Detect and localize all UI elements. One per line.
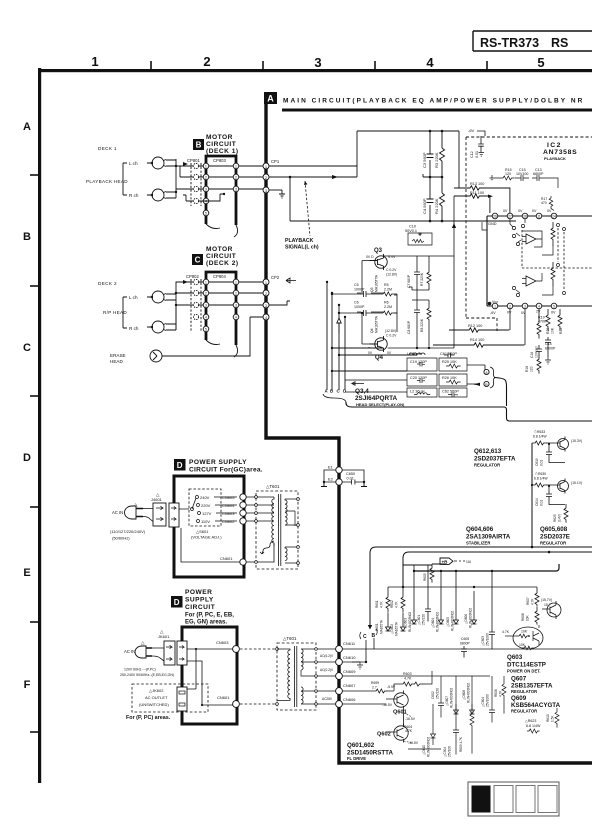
wire head R to bus bbox=[166, 192, 176, 198]
svg-text:Q3: Q3 bbox=[370, 287, 374, 292]
CN605 pin bbox=[240, 494, 246, 500]
capacitor C3 bbox=[427, 131, 434, 177]
svg-text:△D610: △D610 bbox=[422, 745, 426, 755]
svg-text:D: D bbox=[343, 389, 346, 394]
gnd hook bbox=[482, 222, 487, 230]
JK602 dashed box bbox=[132, 684, 208, 712]
svg-text:2: 2 bbox=[509, 305, 511, 309]
svg-text:REGULATOR: REGULATOR bbox=[540, 541, 566, 546]
svg-text:CN605: CN605 bbox=[222, 495, 235, 500]
filter row2 box R26 bbox=[439, 374, 467, 386]
rail B+ y547 bbox=[370, 547, 592, 553]
secondary winding 2 bbox=[285, 547, 287, 561]
svg-text:27: 27 bbox=[508, 215, 512, 219]
svg-text:Q602: Q602 bbox=[377, 732, 391, 738]
T601b dashed box bbox=[277, 643, 316, 710]
svg-text:2.7: 2.7 bbox=[372, 686, 377, 690]
wire Q3/Q4 cap links bbox=[357, 293, 397, 313]
svg-text:C 0.2V: C 0.2V bbox=[386, 268, 397, 272]
svg-text:C: C bbox=[23, 342, 31, 354]
svg-text:A: A bbox=[267, 94, 274, 104]
CN603 pin bbox=[240, 510, 246, 516]
dashed internal h1 bbox=[522, 267, 592, 269]
svg-text:2: 2 bbox=[265, 176, 267, 180]
svg-text:C3 560P: C3 560P bbox=[422, 152, 427, 168]
wire CP2 pin3 hook bbox=[269, 301, 290, 305]
svg-text:R606: R606 bbox=[494, 689, 498, 697]
wire filter out A bbox=[467, 365, 485, 372]
arrow on R11 wire bbox=[488, 195, 493, 198]
CP803 pin 4 bbox=[203, 198, 209, 204]
dashed internal v2 bbox=[558, 228, 564, 290]
svg-text:3: 3 bbox=[235, 188, 237, 192]
wire CN610 row bbox=[342, 661, 366, 663]
primary winding bbox=[272, 497, 274, 546]
svg-text:CN603: CN603 bbox=[222, 511, 235, 516]
svg-text:0V: 0V bbox=[532, 209, 537, 213]
secondary wires to right bbox=[285, 499, 298, 563]
svg-text:Q604,606: Q604,606 bbox=[466, 526, 494, 533]
drop from rail1 to C arrow bbox=[369, 553, 371, 625]
CP801 pin 2 bbox=[193, 174, 198, 179]
head ground bus vertical bbox=[175, 159, 177, 198]
svg-text:4.7K: 4.7K bbox=[531, 598, 535, 605]
CP803 pin 2 bbox=[203, 174, 209, 180]
svg-text:C614: C614 bbox=[535, 498, 539, 506]
wire L2 signal y282 bbox=[176, 282, 264, 293]
CP2 pin 1 bbox=[263, 279, 269, 285]
svg-text:6800P: 6800P bbox=[460, 642, 471, 646]
svg-text:△D605: △D605 bbox=[446, 617, 450, 627]
selector 127V bbox=[198, 512, 201, 515]
row3 L2 C62 bbox=[407, 388, 437, 397]
svg-text:25V100: 25V100 bbox=[448, 746, 452, 757]
svg-text:10K: 10K bbox=[551, 327, 555, 334]
pin 27 stub bbox=[510, 219, 513, 227]
svg-text:MA165TTA: MA165TTA bbox=[375, 315, 379, 333]
transistor pair internal bbox=[516, 233, 521, 242]
svg-text:POWER SUPPLY: POWER SUPPLY bbox=[189, 459, 247, 466]
motor block C thick border bbox=[206, 272, 236, 345]
svg-text:6800P: 6800P bbox=[545, 347, 556, 351]
svg-text:D: D bbox=[23, 452, 31, 464]
CP801 pin 4 bbox=[193, 198, 198, 203]
Q603 dual transistor bbox=[513, 627, 543, 649]
wire below B block curve bbox=[206, 224, 238, 237]
svg-text:5: 5 bbox=[205, 328, 207, 332]
core lines bbox=[279, 494, 281, 566]
selector 220V bbox=[197, 504, 200, 507]
thermal fuse squiggle bbox=[260, 541, 274, 562]
svg-text:△S601: △S601 bbox=[196, 529, 209, 534]
CP804 pin 1 bbox=[203, 279, 209, 285]
svg-text:Q609: Q609 bbox=[511, 695, 527, 702]
svg-text:4: 4 bbox=[538, 305, 540, 309]
svg-text:Q612,613: Q612,613 bbox=[474, 448, 502, 455]
svg-text:120: 120 bbox=[505, 172, 511, 176]
svg-text:(110/127/220/240V): (110/127/220/240V) bbox=[110, 529, 146, 534]
section label C bbox=[192, 254, 203, 265]
resistor R20 bbox=[546, 309, 550, 331]
svg-text:△D606: △D606 bbox=[464, 614, 468, 624]
svg-text:Q3: Q3 bbox=[374, 248, 383, 254]
svg-text:JK601: JK601 bbox=[158, 634, 170, 639]
vertical bus to R2 bbox=[175, 305, 177, 330]
svg-text:6800P: 6800P bbox=[533, 172, 544, 176]
arrow up on bus C bbox=[337, 318, 341, 333]
wire erase y317 bbox=[162, 317, 264, 356]
svg-text:4.7K: 4.7K bbox=[404, 677, 412, 681]
wire pin4 link bbox=[199, 194, 224, 201]
top pin rail bbox=[487, 215, 592, 217]
svg-text:R607: R607 bbox=[526, 597, 530, 605]
svg-text:DECK 2: DECK 2 bbox=[98, 281, 117, 286]
svg-text:B: B bbox=[196, 141, 202, 150]
svg-text:L ch: L ch bbox=[129, 295, 138, 300]
svg-text:2: 2 bbox=[235, 176, 237, 180]
top tick 4-5 bbox=[486, 61, 488, 69]
wire Q4 source right bbox=[388, 347, 454, 349]
arrow on wire L bbox=[183, 162, 188, 166]
brace C B bbox=[360, 629, 378, 639]
IC2 top pin 26 bbox=[492, 213, 498, 219]
section label D bbox=[174, 459, 186, 471]
drop from rail2 bbox=[402, 558, 404, 587]
wire head L2 to bus bbox=[166, 294, 176, 300]
top tick 2-3 bbox=[262, 61, 264, 69]
svg-text:AN7358S: AN7358S bbox=[543, 149, 577, 156]
AC inlet wiring bbox=[178, 509, 240, 562]
arrow down C bbox=[368, 625, 372, 630]
svg-text:-6V: -6V bbox=[468, 128, 475, 133]
mid node C7R7 bbox=[409, 287, 429, 290]
svg-text:6.8 1/4W: 6.8 1/4W bbox=[533, 435, 547, 439]
r/p head L ch bbox=[152, 291, 164, 303]
svg-text:E2: E2 bbox=[328, 477, 334, 482]
svg-text:1000P: 1000P bbox=[354, 305, 365, 309]
svg-text:REGULATOR: REGULATOR bbox=[511, 689, 537, 694]
feedback wire op1 bbox=[522, 231, 542, 247]
top tick 1-2 bbox=[150, 61, 152, 69]
border left vertical line bbox=[38, 68, 41, 783]
svg-text:Q601,602: Q601,602 bbox=[347, 742, 375, 749]
svg-text:△C604: △C604 bbox=[481, 697, 485, 707]
arrow CP2 bbox=[286, 278, 296, 283]
erase head bbox=[150, 350, 162, 362]
J4601 socket box bbox=[169, 503, 179, 527]
svg-text:3: 3 bbox=[235, 304, 237, 308]
secondary winding b2 bbox=[301, 687, 303, 704]
svg-text:2: 2 bbox=[265, 292, 267, 296]
legend black square bbox=[472, 786, 491, 813]
transistor Q3 bbox=[375, 256, 387, 268]
head2 bus vertical bbox=[175, 293, 177, 330]
svg-text:2: 2 bbox=[235, 292, 237, 296]
CP804 right pin 1 bbox=[233, 279, 239, 285]
svg-text:116: 116 bbox=[466, 560, 471, 564]
wire CP801-4 stub bbox=[183, 195, 193, 201]
JK601 plug box bbox=[164, 641, 175, 665]
svg-text:B: B bbox=[372, 633, 376, 639]
JK601 socket box bbox=[177, 641, 187, 665]
border top horizontal line bbox=[38, 69, 592, 72]
JK602 socket bbox=[177, 687, 187, 711]
svg-text:26: 26 bbox=[493, 215, 497, 219]
section label D bbox=[171, 596, 183, 608]
long wire to right edge bbox=[346, 402, 592, 421]
wire CN606 row bbox=[342, 703, 386, 705]
svg-text:CP2: CP2 bbox=[271, 275, 280, 280]
svg-text:R605: R605 bbox=[423, 573, 427, 581]
svg-text:Q601: Q601 bbox=[393, 710, 407, 716]
svg-text:4.7K: 4.7K bbox=[405, 729, 413, 733]
svg-text:CN602: CN602 bbox=[222, 519, 235, 524]
svg-text:C20 120P: C20 120P bbox=[410, 376, 427, 380]
svg-text:A: A bbox=[325, 389, 329, 394]
node A bbox=[484, 369, 489, 374]
svg-text:6.8 1/4W: 6.8 1/4W bbox=[534, 477, 548, 481]
wire R2 signal y305 bbox=[176, 304, 264, 306]
E1 loop wire bbox=[324, 470, 364, 482]
wire op1 out bbox=[542, 245, 553, 255]
svg-text:1.5K: 1.5K bbox=[551, 715, 555, 722]
left tick C-D bbox=[30, 395, 41, 397]
legend outer box bbox=[468, 782, 559, 816]
wire CN609 row bbox=[342, 675, 490, 677]
voltage selector dashed box bbox=[189, 489, 221, 526]
selector rotor bbox=[191, 508, 194, 511]
svg-text:MAIN CIRCUIT(PLAYBACK EQ AMP/P: MAIN CIRCUIT(PLAYBACK EQ AMP/POWER SUPPL… bbox=[283, 98, 584, 105]
svg-text:C16: C16 bbox=[530, 352, 534, 358]
svg-text:4: 4 bbox=[235, 316, 237, 320]
svg-text:C605: C605 bbox=[461, 637, 469, 641]
svg-text:R ch: R ch bbox=[129, 326, 139, 331]
svg-text:3: 3 bbox=[265, 189, 267, 193]
selector 240V bbox=[196, 496, 199, 499]
transistor Q613 bbox=[558, 481, 569, 492]
svg-text:R26 10K: R26 10K bbox=[442, 376, 457, 380]
svg-text:3: 3 bbox=[314, 55, 321, 70]
svg-text:△T601: △T601 bbox=[266, 484, 280, 489]
left tick F-end bbox=[30, 731, 41, 733]
svg-text:6.8 1/4W: 6.8 1/4W bbox=[526, 724, 541, 728]
ground E right bbox=[361, 482, 367, 487]
connector CP801 dashed housing bbox=[191, 163, 201, 206]
svg-text:C7 680P: C7 680P bbox=[407, 274, 411, 288]
svg-text:4.7K: 4.7K bbox=[380, 601, 384, 608]
resistor R22 bbox=[558, 309, 562, 331]
top tick 3-4 bbox=[374, 61, 376, 69]
svg-text:R6: R6 bbox=[384, 301, 389, 305]
svg-text:CP803: CP803 bbox=[213, 158, 226, 163]
svg-text:R601: R601 bbox=[375, 600, 379, 608]
IC2 top pin 28 bbox=[522, 213, 528, 219]
svg-text:120V 60Hz ---(P,PC): 120V 60Hz ---(P,PC) bbox=[124, 668, 156, 672]
hexagon +B bbox=[440, 558, 453, 564]
svg-text:10V100: 10V100 bbox=[516, 172, 528, 176]
svg-text:1: 1 bbox=[235, 281, 237, 285]
svg-text:PLAYBACK HEAD: PLAYBACK HEAD bbox=[86, 179, 128, 184]
svg-text:Q607: Q607 bbox=[511, 676, 527, 683]
wire to R15 bbox=[490, 175, 501, 180]
svg-text:120: 120 bbox=[530, 366, 534, 372]
svg-text:E: E bbox=[23, 567, 30, 579]
model box outline bbox=[473, 31, 592, 51]
svg-text:1: 1 bbox=[91, 54, 98, 69]
CP804 right pin 2 bbox=[233, 290, 239, 296]
svg-text:△D602: △D602 bbox=[390, 624, 394, 634]
svg-text:1000P: 1000P bbox=[354, 288, 365, 292]
svg-text:FL DRIVE: FL DRIVE bbox=[347, 756, 366, 761]
wire head R2 to bus bbox=[166, 324, 176, 330]
wire CN607 row bbox=[342, 690, 374, 692]
svg-text:R8 220K: R8 220K bbox=[420, 318, 424, 332]
svg-text:110V: 110V bbox=[201, 519, 210, 524]
transistor Q4 bbox=[375, 338, 387, 350]
wire row2 bbox=[332, 370, 407, 372]
svg-text:C: C bbox=[337, 389, 341, 394]
svg-text:(15.7V): (15.7V) bbox=[541, 598, 552, 602]
svg-text:C4 560P: C4 560P bbox=[422, 198, 427, 214]
wire Q4 line to filter bbox=[339, 348, 417, 355]
svg-text:AC(6.2)V: AC(6.2)V bbox=[320, 654, 334, 658]
svg-text:SUPPLY: SUPPLY bbox=[185, 597, 214, 604]
junction dots C5 C6 bbox=[331, 293, 333, 295]
IC2 top pin 11 bbox=[536, 213, 542, 219]
wire op2 bbox=[542, 273, 553, 295]
CP801 pin 3 bbox=[193, 186, 198, 191]
junction dots top rail bbox=[429, 130, 432, 133]
svg-text:E1: E1 bbox=[328, 465, 334, 470]
main circuit block border bbox=[266, 104, 592, 763]
svg-text:-16.5V: -16.5V bbox=[405, 717, 416, 721]
svg-text:L ch: L ch bbox=[129, 161, 138, 166]
CN604 pin bbox=[240, 502, 246, 508]
transistor Q605 bbox=[547, 603, 561, 617]
drop C to CN row bbox=[366, 638, 374, 662]
CP804 right pin 4 bbox=[233, 314, 239, 320]
bracket deck2 labels bbox=[123, 297, 127, 328]
T601 dashed box bbox=[256, 491, 298, 569]
legend white square 3 bbox=[516, 786, 535, 813]
svg-text:CP801: CP801 bbox=[187, 158, 200, 163]
riser x459 down from rail bbox=[458, 131, 460, 188]
svg-text:△D604: △D604 bbox=[431, 618, 435, 628]
wire shield2 y293 bbox=[176, 292, 264, 294]
wire L signal y166 bbox=[176, 165, 264, 167]
long rail y221 bbox=[290, 220, 516, 222]
r/p head R ch bbox=[152, 321, 164, 333]
rail x532 bbox=[531, 443, 533, 547]
riser x290 down bbox=[289, 177, 291, 221]
svg-text:HEAD SELECT(PLAY-ON): HEAD SELECT(PLAY-ON) bbox=[356, 402, 405, 407]
svg-text:CN604: CN604 bbox=[222, 503, 235, 508]
svg-text:5: 5 bbox=[205, 212, 207, 216]
svg-text:25V220: 25V220 bbox=[436, 688, 440, 699]
svg-text:3: 3 bbox=[205, 304, 207, 308]
IC2 inner border left bbox=[486, 216, 488, 306]
transistor pair internal 2 bbox=[512, 286, 515, 289]
connector CN607 bbox=[336, 688, 343, 695]
resistor internal R b bbox=[551, 262, 555, 286]
svg-text:3: 3 bbox=[524, 305, 526, 309]
resistor R3 bbox=[440, 131, 445, 177]
svg-text:A: A bbox=[23, 121, 31, 133]
svg-text:R20: R20 bbox=[546, 328, 550, 334]
svg-text:4: 4 bbox=[205, 316, 207, 320]
CP1 pin 3 bbox=[263, 187, 269, 193]
svg-text:DECK 1: DECK 1 bbox=[98, 146, 117, 151]
svg-text:1: 1 bbox=[265, 281, 267, 285]
svg-text:MOTOR: MOTOR bbox=[206, 246, 233, 253]
svg-text:2: 2 bbox=[205, 292, 207, 296]
svg-text:25V1000: 25V1000 bbox=[486, 694, 490, 707]
svg-text:△R623: △R623 bbox=[525, 719, 536, 723]
IC2 bottom pin 1 bbox=[492, 303, 498, 309]
svg-text:240V: 240V bbox=[200, 495, 210, 500]
svg-text:△T601: △T601 bbox=[283, 636, 297, 641]
rail right of R5/R6 bbox=[396, 294, 398, 332]
svg-text:0V: 0V bbox=[507, 311, 512, 315]
resistor R630 bbox=[532, 483, 547, 487]
svg-text:C10: C10 bbox=[409, 225, 416, 229]
wire Q601 leads bbox=[403, 691, 405, 726]
IC2 dashed boundary bbox=[466, 137, 592, 331]
svg-text:4: 4 bbox=[265, 316, 267, 320]
svg-text:R16: R16 bbox=[525, 366, 529, 372]
svg-text:SIGNAL(L ch): SIGNAL(L ch) bbox=[285, 245, 319, 251]
IC2 bottom pin 3 bbox=[522, 303, 528, 309]
svg-text:25V1000: 25V1000 bbox=[486, 633, 490, 646]
CP802 pin 4 bbox=[193, 314, 198, 319]
svg-text:RS-TR373: RS-TR373 bbox=[480, 36, 539, 50]
svg-text:R/P HEAD: R/P HEAD bbox=[103, 310, 127, 315]
svg-text:C61 560P: C61 560P bbox=[440, 352, 457, 356]
svg-text:4.7K: 4.7K bbox=[499, 690, 503, 697]
connector CN611 bbox=[336, 646, 343, 653]
svg-text:MA165TA: MA165TA bbox=[380, 619, 384, 634]
svg-text:C602: C602 bbox=[431, 691, 435, 699]
connector CN606 bbox=[336, 701, 343, 708]
svg-text:25V220: 25V220 bbox=[422, 614, 426, 625]
transistor Q602 bbox=[394, 726, 408, 740]
playback head R ch bbox=[152, 189, 164, 201]
bus line C bbox=[338, 305, 340, 390]
svg-text:-6V: -6V bbox=[490, 311, 496, 315]
svg-text:2: 2 bbox=[203, 54, 210, 69]
filter row2 box C20 bbox=[407, 374, 437, 386]
svg-text:C8 680P: C8 680P bbox=[407, 320, 411, 334]
svg-text:10K: 10K bbox=[526, 614, 530, 621]
CN603 pin F bbox=[233, 646, 240, 653]
left arrow head select bbox=[352, 382, 364, 386]
CN602 pin bbox=[240, 518, 246, 524]
connector CP802 dashed housing bbox=[191, 279, 201, 332]
wire Q3 gate to C5 bbox=[362, 261, 370, 295]
svg-text:RLIN4003N02: RLIN4003N02 bbox=[469, 608, 473, 628]
wire CP1-1 to riser bbox=[269, 165, 357, 167]
E2 wire with C650 bbox=[324, 480, 364, 485]
CP804 right pin 3 bbox=[233, 302, 239, 308]
svg-text:10K: 10K bbox=[521, 630, 528, 634]
svg-text:AC OUTLET: AC OUTLET bbox=[145, 695, 168, 700]
svg-text:C12: C12 bbox=[470, 151, 474, 158]
dashed mains to T601b bbox=[240, 649, 277, 704]
rail y552 bbox=[403, 552, 592, 558]
svg-text:R22: R22 bbox=[559, 328, 563, 334]
inductor L1 symbol bbox=[409, 353, 425, 355]
svg-text:Q605,608: Q605,608 bbox=[540, 526, 568, 533]
